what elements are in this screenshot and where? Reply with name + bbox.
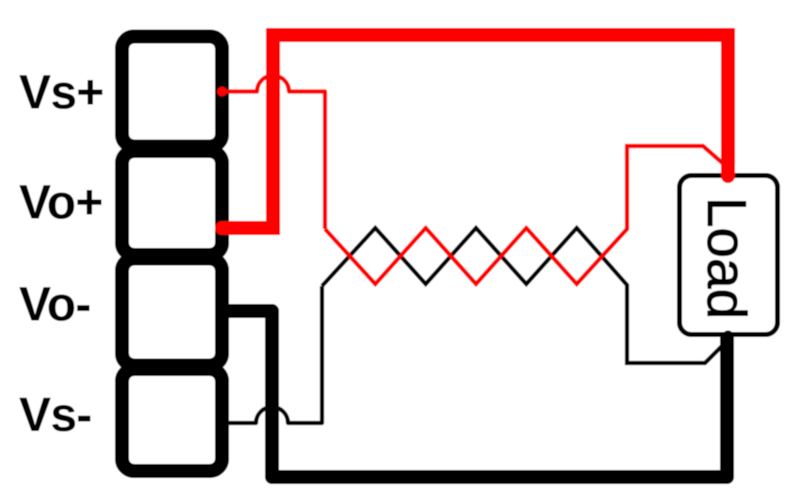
wire: thin red sense wire Vs+ with hop over thick red, to resistor — [222, 76, 325, 230]
resistor: black wire-resistance zigzag — [322, 228, 728, 363]
terminal block box Vo+ — [122, 151, 222, 255]
node: Load bottom junction dot — [723, 331, 734, 342]
svg-text:Vo-: Vo- — [19, 279, 91, 332]
node: Vs+ terminal dot — [217, 87, 227, 97]
resistor: red wire-resistance zigzag — [325, 146, 727, 284]
svg-text:Vs-: Vs- — [19, 389, 92, 442]
terminal block box Vo- — [122, 259, 222, 366]
wire: thin black sense wire Vs- with hop over thick black, to resistor — [229, 286, 322, 423]
svg-text:Vo+: Vo+ — [19, 177, 103, 230]
wire: thick black force wire Vo- to Load bottom — [222, 311, 727, 477]
svg-text:Vs+: Vs+ — [19, 67, 104, 120]
terminal block box Vs- — [122, 369, 222, 471]
wire: thick red force wire Vo+ to Load top — [222, 35, 728, 228]
terminal block box Vs+ — [122, 37, 222, 147]
svg-text:Load: Load — [696, 197, 758, 319]
load box U1 — [680, 176, 778, 335]
